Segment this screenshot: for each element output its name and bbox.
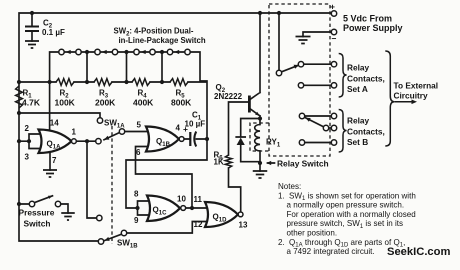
svg-text:a 7492 integrated circuit.: a 7492 integrated circuit. bbox=[287, 247, 375, 256]
svg-text:2N2222: 2N2222 bbox=[214, 92, 243, 101]
svg-text:1.: 1. bbox=[278, 191, 285, 200]
svg-text:a normally open pressure switc: a normally open pressure switch. bbox=[287, 201, 405, 210]
svg-text:For operation with a normally: For operation with a normally closed bbox=[287, 210, 416, 219]
svg-text:2: 2 bbox=[25, 124, 30, 133]
svg-text:800K: 800K bbox=[171, 98, 192, 108]
svg-text:3: 3 bbox=[25, 153, 30, 162]
svg-text:Contacts,: Contacts, bbox=[347, 74, 385, 84]
svg-text:4: 4 bbox=[176, 124, 181, 133]
svg-text:0.1 µF: 0.1 µF bbox=[42, 28, 65, 37]
svg-text:in-Line-Package Switch: in-Line-Package Switch bbox=[119, 36, 206, 45]
svg-text:400K: 400K bbox=[133, 98, 154, 108]
svg-text:−: − bbox=[332, 34, 337, 44]
svg-text:To External: To External bbox=[394, 80, 439, 90]
svg-text:14: 14 bbox=[50, 119, 59, 128]
svg-text:Switch: Switch bbox=[24, 219, 51, 229]
svg-text:13: 13 bbox=[239, 221, 248, 230]
svg-text:6: 6 bbox=[136, 148, 141, 157]
svg-text:7: 7 bbox=[52, 156, 57, 165]
svg-text:9: 9 bbox=[134, 216, 139, 225]
svg-text:8: 8 bbox=[134, 190, 139, 199]
svg-text:Relay Switch: Relay Switch bbox=[277, 159, 329, 169]
svg-text:Relay: Relay bbox=[347, 116, 370, 126]
svg-text:Power Supply: Power Supply bbox=[343, 23, 403, 33]
svg-text:5 Vdc From: 5 Vdc From bbox=[343, 14, 392, 24]
svg-text:Set A: Set A bbox=[347, 84, 368, 94]
svg-text:200K: 200K bbox=[95, 98, 116, 108]
svg-text:+: + bbox=[183, 124, 188, 134]
svg-text:other position.: other position. bbox=[287, 229, 338, 238]
svg-text:Notes:: Notes: bbox=[278, 182, 301, 191]
svg-text:Contacts,: Contacts, bbox=[347, 127, 385, 137]
svg-text:2.: 2. bbox=[278, 238, 285, 247]
svg-text:12: 12 bbox=[194, 220, 203, 229]
svg-text:10: 10 bbox=[177, 194, 186, 203]
svg-text:5: 5 bbox=[137, 121, 142, 130]
svg-text:1: 1 bbox=[72, 128, 77, 137]
svg-text:Set B: Set B bbox=[347, 137, 368, 147]
svg-text:4.7K: 4.7K bbox=[22, 98, 41, 108]
svg-text:100K: 100K bbox=[55, 98, 76, 108]
svg-text:11: 11 bbox=[194, 195, 203, 204]
svg-text:1K: 1K bbox=[214, 158, 224, 167]
svg-text:Circuitry: Circuitry bbox=[394, 90, 429, 100]
svg-text:Relay: Relay bbox=[347, 63, 370, 73]
svg-text:SeekIC.com: SeekIC.com bbox=[387, 246, 450, 258]
svg-text:Pressure: Pressure bbox=[19, 208, 55, 218]
svg-text:+: + bbox=[330, 2, 335, 12]
